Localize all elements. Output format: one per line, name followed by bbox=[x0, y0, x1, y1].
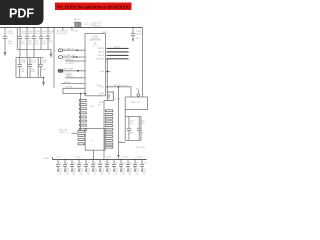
svg-text:X7R: X7R bbox=[42, 43, 47, 45]
junction dots on top rail bbox=[19, 27, 73, 29]
svg-text:10uF: 10uF bbox=[21, 33, 26, 35]
svg-text:4: 4 bbox=[86, 71, 87, 73]
wire long vertical feed bbox=[53, 28, 55, 89]
capacitor group 2 box bbox=[16, 58, 44, 78]
capacitor C102 bbox=[25, 28, 29, 50]
capacitor CB9 bbox=[112, 160, 116, 173]
capacitor C105 bbox=[46, 28, 50, 50]
wire to module bbox=[107, 87, 131, 97]
svg-text:5: 5 bbox=[86, 78, 87, 80]
block left pins bbox=[78, 130, 85, 144]
wire right loop vertical bbox=[142, 28, 144, 98]
resistor FB100 bbox=[75, 23, 81, 27]
capacitor CB1 bbox=[56, 160, 60, 173]
svg-text:6: 6 bbox=[129, 52, 130, 54]
node tap bbox=[107, 71, 109, 73]
jumper J100 bbox=[107, 92, 113, 100]
sheet port P1 bbox=[59, 49, 63, 52]
svg-text:7: 7 bbox=[129, 56, 130, 58]
test point TP1 bbox=[137, 90, 140, 96]
svg-text:S_GPIO1: S_GPIO1 bbox=[66, 63, 74, 65]
svg-text:PC_DCDC for GaN drive & ctrl o: PC_DCDC for GaN drive & ctrl of DCDC bbox=[57, 4, 131, 9]
svg-text:C_IN: C_IN bbox=[56, 157, 61, 159]
svg-text:IO_SDA: IO_SDA bbox=[66, 58, 74, 61]
capacitor C103 bbox=[32, 28, 36, 50]
wire pin7 bracket bbox=[63, 88, 85, 93]
svg-text:C_BK2: C_BK2 bbox=[122, 157, 129, 159]
svg-text:LMR54308: LMR54308 bbox=[89, 40, 101, 42]
svg-text:PB6: PB6 bbox=[100, 71, 104, 73]
capacitor C106 bbox=[18, 58, 22, 78]
ground arrow below top cap group bbox=[50, 50, 53, 59]
net bus bar 3 bbox=[107, 55, 131, 58]
vertical net drop from bus bbox=[106, 60, 108, 93]
svg-text:X7R: X7R bbox=[8, 43, 13, 45]
IC pin labels right inside bbox=[96, 47, 104, 95]
svg-text:X7R: X7R bbox=[21, 43, 26, 45]
svg-text:PWR_IN: PWR_IN bbox=[93, 26, 102, 28]
svg-text:SW_D: SW_D bbox=[114, 46, 121, 48]
capacitor C111 bbox=[127, 117, 131, 141]
connector ladder J102 bbox=[80, 94, 82, 132]
IC pin numbers left bbox=[86, 50, 87, 95]
svg-text:600R: 600R bbox=[74, 21, 79, 23]
svg-text:100nF: 100nF bbox=[136, 33, 143, 35]
svg-text:5: 5 bbox=[129, 49, 130, 51]
capacitor CB4 bbox=[77, 160, 81, 173]
wire pin6 bbox=[61, 83, 85, 85]
IC U100 box bbox=[85, 34, 106, 96]
svg-text:XTAL_IN: XTAL_IN bbox=[59, 128, 68, 131]
svg-text:M_UART_TX: M_UART_TX bbox=[64, 47, 76, 50]
svg-text:22uF: 22uF bbox=[42, 62, 47, 64]
wire drop to cap group 3 bbox=[119, 87, 126, 143]
svg-text:PGND: PGND bbox=[44, 158, 50, 160]
svg-text:U100: U100 bbox=[92, 37, 98, 39]
capacitor CB11 bbox=[126, 160, 130, 173]
svg-text:NRST_KEY: NRST_KEY bbox=[64, 69, 75, 71]
svg-text:22uF: 22uF bbox=[21, 62, 26, 64]
svg-text:PA9/TX: PA9/TX bbox=[98, 54, 105, 57]
node stub 3V3 bbox=[62, 28, 64, 31]
capacitor CB6 bbox=[91, 160, 95, 173]
svg-text:100n: 100n bbox=[140, 123, 144, 125]
svg-text:C_OUT: C_OUT bbox=[74, 157, 82, 159]
ground arrow below group 2 bbox=[42, 78, 45, 87]
svg-text:X7R: X7R bbox=[28, 43, 33, 45]
capacitor CB10 bbox=[119, 160, 123, 173]
net bus bar 1 bbox=[107, 46, 131, 50]
PDF badge bbox=[0, 0, 44, 25]
svg-text:X5R: X5R bbox=[21, 71, 26, 73]
capacitor CB5 bbox=[84, 160, 88, 173]
connector ladder J103 bbox=[104, 100, 112, 148]
svg-text:PA10/RX: PA10/RX bbox=[96, 58, 104, 61]
capacitor CB2 bbox=[63, 160, 67, 173]
svg-text:C_BK3: C_BK3 bbox=[136, 157, 143, 159]
connector verticals between cap groups bbox=[20, 50, 34, 58]
capacitor CB8 bbox=[105, 160, 109, 173]
net bus bar 2 bbox=[107, 51, 131, 54]
svg-text:X5R: X5R bbox=[31, 71, 36, 73]
svg-text:25V: 25V bbox=[42, 69, 46, 71]
capacitor C104 bbox=[39, 28, 43, 50]
wire pin5 bbox=[65, 77, 85, 79]
svg-text:6: 6 bbox=[86, 83, 87, 85]
wire block to rail bbox=[94, 148, 105, 160]
capacitor C110 top right bbox=[131, 28, 135, 43]
capacitor CB3 bbox=[70, 160, 74, 173]
svg-text:10uF: 10uF bbox=[42, 33, 47, 35]
svg-text:P_SW: P_SW bbox=[114, 99, 120, 101]
svg-text:VDD_MCU_3V3: VDD_MCU_3V3 bbox=[114, 85, 128, 87]
svg-text:VDD33: VDD33 bbox=[101, 32, 108, 34]
svg-text:VCC_3V3: VCC_3V3 bbox=[93, 23, 103, 25]
svg-text:PA13/S: PA13/S bbox=[98, 47, 105, 50]
sheet port P2 bbox=[59, 56, 63, 59]
sheet port P3 bbox=[58, 70, 63, 73]
svg-text:1: 1 bbox=[86, 50, 87, 52]
svg-text:10uF: 10uF bbox=[35, 33, 40, 35]
svg-text:VSS_A: VSS_A bbox=[66, 86, 73, 89]
wire pin3 bbox=[65, 60, 85, 62]
arrow on pin1 wire bbox=[77, 49, 79, 51]
wire module to cap group 3 bbox=[124, 110, 126, 117]
node stub VDDA bbox=[71, 28, 73, 31]
wire bottom rail bbox=[53, 157, 147, 159]
svg-text:X7R: X7R bbox=[35, 43, 40, 45]
svg-text:BOOT0: BOOT0 bbox=[64, 82, 70, 84]
arrows on pin2 wire bbox=[73, 56, 75, 58]
capacitor CB13 bbox=[140, 160, 144, 173]
svg-text:VDA: VDA bbox=[73, 30, 78, 33]
svg-text:IO_N: IO_N bbox=[90, 106, 95, 108]
ground arrow into bottom rail bbox=[117, 142, 120, 159]
svg-text:22uF: 22uF bbox=[31, 62, 36, 64]
capacitor CB7 bbox=[98, 160, 102, 173]
module U101 box bbox=[125, 97, 147, 110]
svg-text:GND_SW: GND_SW bbox=[136, 147, 145, 149]
svg-text:2: 2 bbox=[86, 57, 87, 59]
wire pin1 bbox=[63, 49, 85, 51]
wire top rail bbox=[0, 27, 143, 29]
capacitor C108 bbox=[39, 58, 43, 78]
capacitor group 3 box bbox=[125, 117, 141, 141]
svg-text:8: 8 bbox=[86, 93, 87, 95]
wire pin2 bbox=[63, 56, 85, 58]
title banner bbox=[55, 3, 132, 11]
svg-text:7: 7 bbox=[86, 88, 87, 90]
block U102 bbox=[85, 129, 105, 151]
svg-text:3: 3 bbox=[86, 61, 87, 63]
svg-text:C_BK1: C_BK1 bbox=[105, 157, 112, 159]
svg-text:16V: 16V bbox=[136, 38, 140, 40]
svg-text:8: 8 bbox=[129, 59, 130, 61]
svg-text:4.7uF: 4.7uF bbox=[8, 33, 14, 35]
junction dots bottom rail bbox=[64, 159, 135, 160]
svg-text:50V: 50V bbox=[49, 41, 53, 43]
svg-text:PA14/S: PA14/S bbox=[98, 51, 105, 54]
wire pin4 bbox=[63, 70, 85, 72]
svg-text:SWCLK: SWCLK bbox=[66, 76, 73, 78]
capacitor C112 bbox=[137, 117, 141, 141]
svg-text:PDF: PDF bbox=[9, 7, 34, 21]
wire into block bbox=[72, 132, 79, 134]
capacitor CB12 bbox=[133, 160, 137, 173]
net bus bar 4 bbox=[107, 58, 131, 61]
svg-text:10uF: 10uF bbox=[28, 33, 33, 35]
svg-text:XTAL_O: XTAL_O bbox=[59, 131, 67, 134]
svg-text:SWD1 U4: SWD1 U4 bbox=[131, 102, 141, 104]
svg-text:VDD: VDD bbox=[97, 85, 102, 87]
capacitor C101 bbox=[18, 28, 22, 50]
capacitor C107 bbox=[28, 58, 32, 78]
capacitor C100 bbox=[3, 28, 7, 57]
wire lower rail of top cap group bbox=[17, 28, 51, 50]
